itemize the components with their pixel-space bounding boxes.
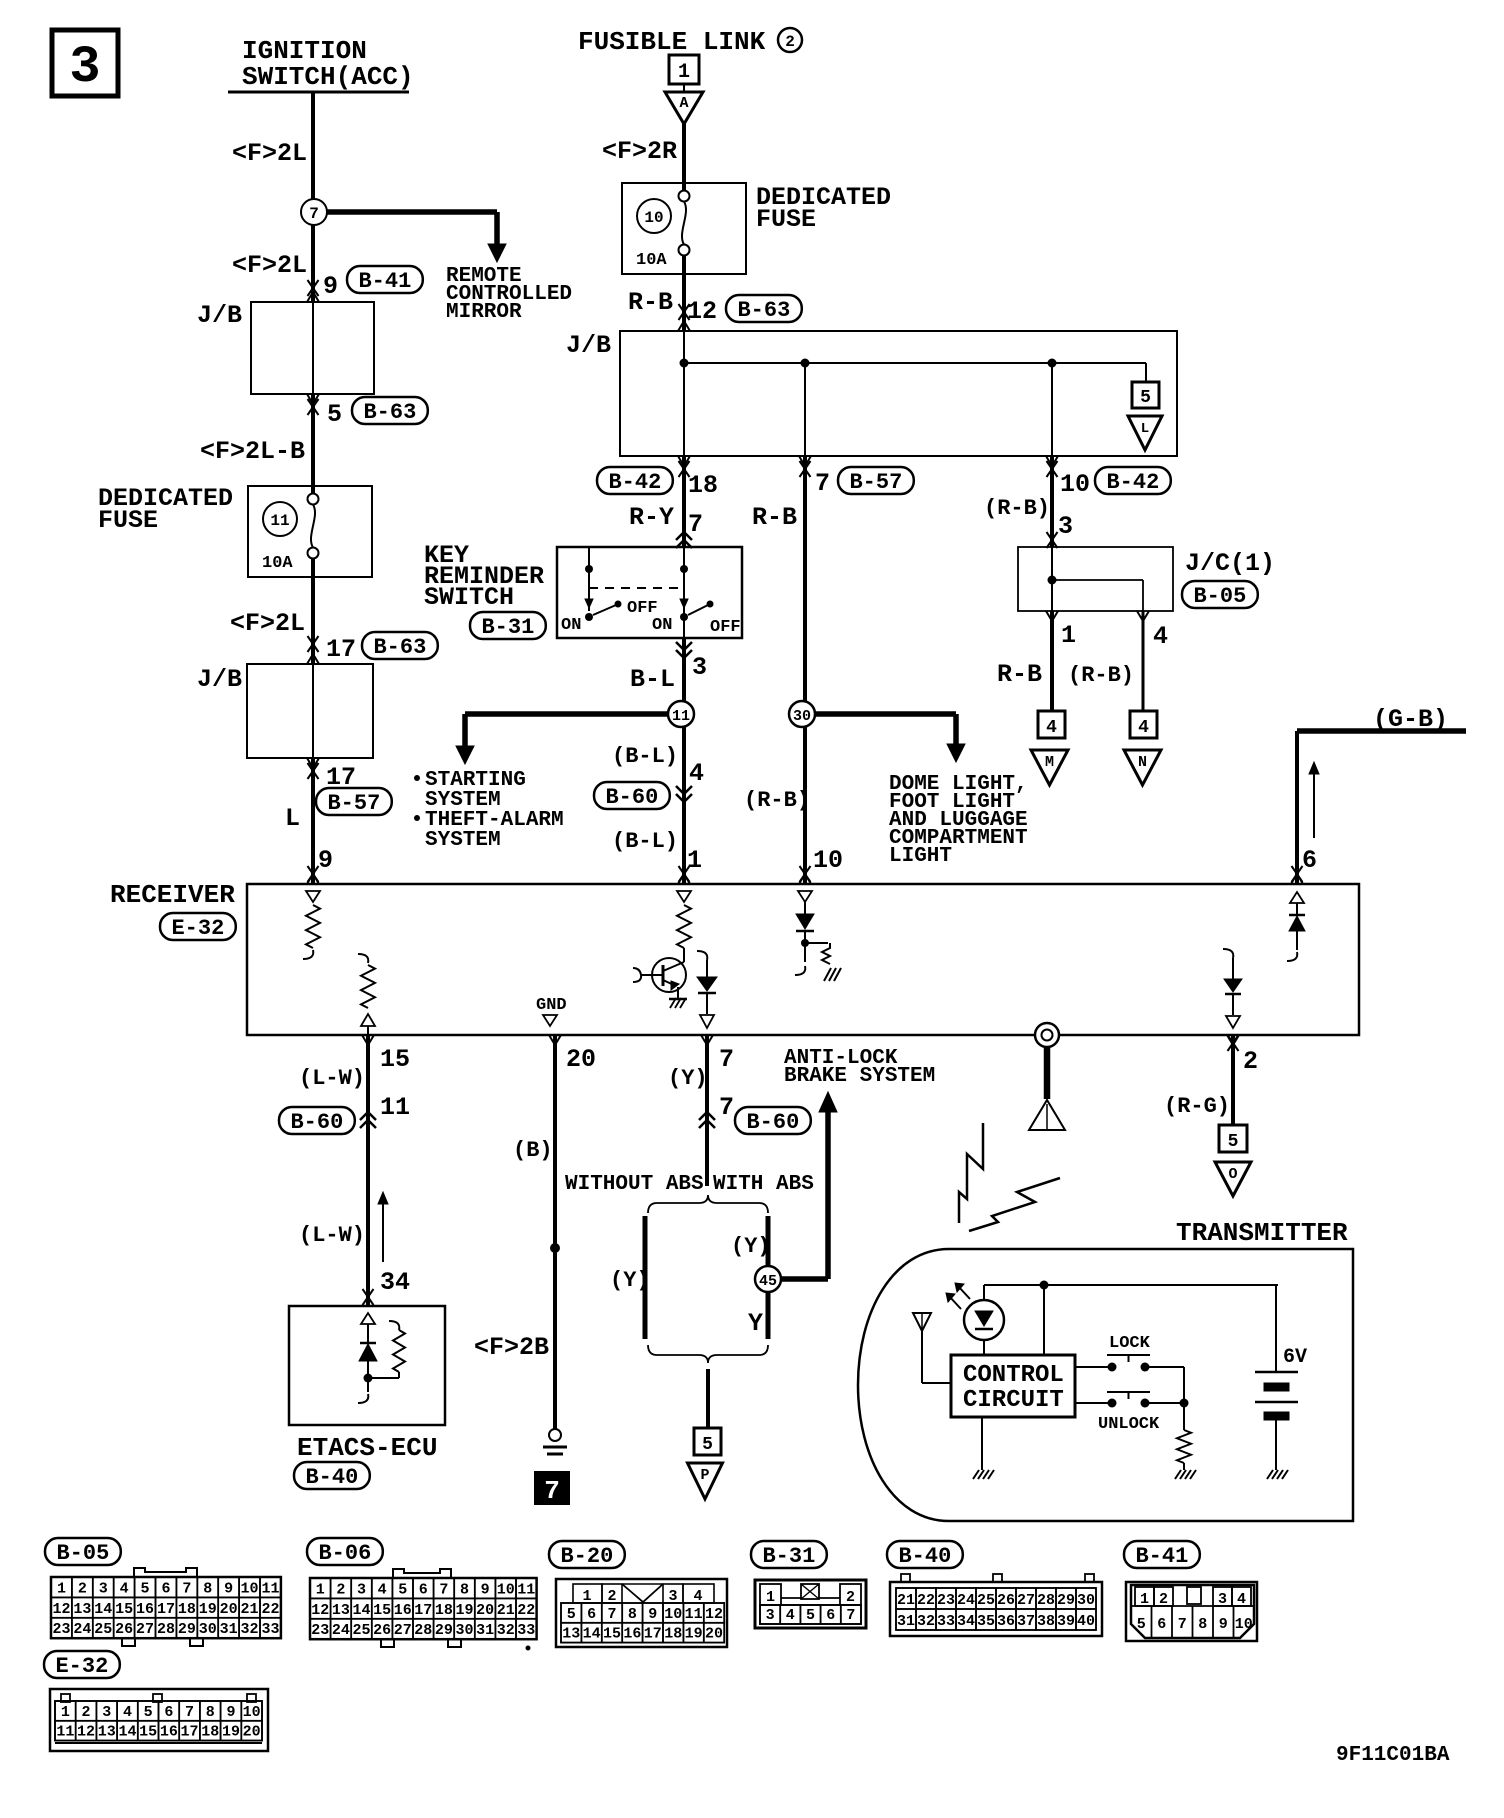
svg-text:23: 23 <box>937 1592 955 1609</box>
svg-text:P: P <box>700 1467 709 1484</box>
svg-text:20: 20 <box>243 1724 261 1741</box>
svg-text:9F11C01BA: 9F11C01BA <box>1336 1744 1450 1767</box>
svg-text:R-Y: R-Y <box>629 503 674 532</box>
svg-text:37: 37 <box>1017 1613 1035 1630</box>
svg-text:<F>2L: <F>2L <box>230 609 305 638</box>
svg-text:8: 8 <box>203 1580 212 1597</box>
svg-text:14: 14 <box>352 1602 370 1619</box>
svg-text:33: 33 <box>937 1613 955 1630</box>
svg-text:18: 18 <box>688 471 718 500</box>
svg-text:B-41: B-41 <box>1135 1544 1188 1569</box>
svg-text:B-57: B-57 <box>849 470 902 495</box>
svg-text:FUSIBLE LINK: FUSIBLE LINK <box>578 27 766 57</box>
svg-text:LOCK: LOCK <box>1109 1334 1151 1353</box>
svg-text:13: 13 <box>98 1724 116 1741</box>
svg-text:RECEIVER: RECEIVER <box>110 880 235 910</box>
svg-text:B-63: B-63 <box>373 635 426 660</box>
svg-text:(R-G): (R-G) <box>1164 1094 1230 1119</box>
svg-text:(B-L): (B-L) <box>612 829 678 854</box>
svg-text:9: 9 <box>1219 1616 1228 1633</box>
svg-text:B-40: B-40 <box>305 1465 358 1490</box>
svg-text:14: 14 <box>94 1601 112 1618</box>
svg-text:19: 19 <box>685 1626 703 1643</box>
svg-text:3: 3 <box>692 653 707 682</box>
svg-text:L: L <box>285 804 300 833</box>
svg-text:4: 4 <box>689 759 704 788</box>
svg-text:11: 11 <box>56 1724 74 1741</box>
svg-text:10: 10 <box>664 1606 682 1623</box>
svg-text:17: 17 <box>157 1601 175 1618</box>
svg-text:4: 4 <box>1046 718 1057 738</box>
svg-text:28: 28 <box>157 1621 175 1638</box>
svg-text:4: 4 <box>378 1581 387 1598</box>
svg-text:10: 10 <box>1060 470 1090 499</box>
svg-text:9: 9 <box>481 1581 490 1598</box>
svg-text:24: 24 <box>332 1622 350 1639</box>
svg-text:5: 5 <box>1137 1616 1146 1633</box>
svg-text:5: 5 <box>398 1581 407 1598</box>
svg-text:SYSTEM: SYSTEM <box>425 829 501 852</box>
svg-text:24: 24 <box>73 1621 91 1638</box>
svg-text:1: 1 <box>766 1589 775 1606</box>
svg-text:R-B: R-B <box>752 503 797 532</box>
svg-text:32: 32 <box>497 1622 515 1639</box>
svg-text:6V: 6V <box>1283 1346 1307 1369</box>
svg-text:3: 3 <box>766 1607 775 1624</box>
svg-text:11: 11 <box>672 708 690 725</box>
svg-text:2: 2 <box>78 1580 87 1597</box>
svg-text:12: 12 <box>77 1724 95 1741</box>
svg-text:1: 1 <box>57 1580 66 1597</box>
svg-text:21: 21 <box>497 1602 515 1619</box>
svg-text:R-B: R-B <box>628 288 673 317</box>
svg-text:13: 13 <box>562 1626 580 1643</box>
svg-text:5: 5 <box>144 1704 153 1721</box>
svg-text:18: 18 <box>201 1724 219 1741</box>
svg-text:UNLOCK: UNLOCK <box>1098 1415 1160 1434</box>
svg-text:8: 8 <box>460 1581 469 1598</box>
svg-text:<F>2L: <F>2L <box>232 251 307 280</box>
svg-text:GND: GND <box>536 996 567 1015</box>
svg-text:B-60: B-60 <box>746 1110 799 1135</box>
svg-text:38: 38 <box>1037 1613 1055 1630</box>
svg-text:B-41: B-41 <box>358 269 411 294</box>
svg-text:(L-W): (L-W) <box>299 1066 365 1091</box>
svg-text:7: 7 <box>719 1045 734 1074</box>
svg-text:20: 20 <box>476 1602 494 1619</box>
svg-text:7: 7 <box>1178 1616 1187 1633</box>
svg-text:22: 22 <box>261 1601 279 1618</box>
svg-text:45: 45 <box>759 1273 777 1290</box>
svg-text:32: 32 <box>917 1613 935 1630</box>
svg-text:26: 26 <box>373 1622 391 1639</box>
svg-text:FUSE: FUSE <box>756 205 816 234</box>
svg-text:(B): (B) <box>513 1138 553 1163</box>
svg-text:B-05: B-05 <box>56 1541 109 1566</box>
svg-text:27: 27 <box>394 1622 412 1639</box>
svg-text:27: 27 <box>1017 1592 1035 1609</box>
svg-text:6: 6 <box>826 1607 835 1624</box>
svg-text:9: 9 <box>323 272 338 301</box>
svg-text:ON: ON <box>652 616 672 635</box>
svg-text:8: 8 <box>1198 1616 1207 1633</box>
svg-text:3: 3 <box>69 38 100 97</box>
svg-text:6: 6 <box>419 1581 428 1598</box>
svg-text:A: A <box>679 95 688 112</box>
svg-text:<F>2R: <F>2R <box>602 137 677 166</box>
svg-text:21: 21 <box>241 1601 259 1618</box>
svg-text:5: 5 <box>1228 1132 1239 1152</box>
svg-text:9: 9 <box>226 1704 235 1721</box>
svg-text:11: 11 <box>270 512 289 530</box>
svg-text:17: 17 <box>326 635 356 664</box>
svg-text:19: 19 <box>222 1724 240 1741</box>
svg-text:1: 1 <box>687 846 702 875</box>
svg-text:(Y): (Y) <box>610 1268 650 1293</box>
svg-text:34: 34 <box>957 1613 975 1630</box>
svg-text:R-B: R-B <box>997 660 1042 689</box>
svg-text:B-06: B-06 <box>318 1541 371 1566</box>
svg-text:M: M <box>1045 754 1054 771</box>
svg-text:8: 8 <box>628 1606 637 1623</box>
svg-text:8: 8 <box>206 1704 215 1721</box>
svg-text:16: 16 <box>136 1601 154 1618</box>
svg-text:5: 5 <box>567 1606 576 1623</box>
svg-text:28: 28 <box>414 1622 432 1639</box>
svg-text:4: 4 <box>1138 718 1149 738</box>
svg-text:SWITCH: SWITCH <box>424 583 514 612</box>
svg-text:40: 40 <box>1077 1613 1095 1630</box>
svg-text:3: 3 <box>1058 512 1073 541</box>
svg-text:3: 3 <box>102 1704 111 1721</box>
svg-text:29: 29 <box>1057 1592 1075 1609</box>
svg-text:<F>2L: <F>2L <box>232 139 307 168</box>
svg-text:B-L: B-L <box>630 665 675 694</box>
svg-text:5: 5 <box>1140 388 1151 408</box>
svg-text:B-60: B-60 <box>605 785 658 810</box>
svg-text:16: 16 <box>623 1626 641 1643</box>
svg-text:7: 7 <box>688 510 703 539</box>
svg-text:E-32: E-32 <box>171 916 224 941</box>
svg-text:24: 24 <box>957 1592 975 1609</box>
svg-text:16: 16 <box>160 1724 178 1741</box>
svg-text:TRANSMITTER: TRANSMITTER <box>1176 1218 1348 1248</box>
svg-text:B-31: B-31 <box>481 615 534 640</box>
svg-text:J/C(1): J/C(1) <box>1185 549 1275 578</box>
svg-text:20: 20 <box>705 1626 723 1643</box>
svg-text:3: 3 <box>357 1581 366 1598</box>
svg-text:15: 15 <box>373 1602 391 1619</box>
svg-text:22: 22 <box>917 1592 935 1609</box>
svg-text:17: 17 <box>644 1626 662 1643</box>
svg-text:1: 1 <box>61 1704 70 1721</box>
svg-text:23: 23 <box>52 1621 70 1638</box>
svg-text:10: 10 <box>241 1580 259 1597</box>
svg-text:B-60: B-60 <box>290 1110 343 1135</box>
svg-text:4: 4 <box>786 1607 795 1624</box>
svg-text:7: 7 <box>846 1607 855 1624</box>
svg-text:4: 4 <box>123 1704 132 1721</box>
svg-text:(R-B): (R-B) <box>984 496 1050 521</box>
svg-text:18: 18 <box>664 1626 682 1643</box>
svg-text:9: 9 <box>224 1580 233 1597</box>
svg-text:B-40: B-40 <box>898 1544 951 1569</box>
svg-text:(R-B): (R-B) <box>744 788 810 813</box>
svg-text:J/B: J/B <box>197 301 242 330</box>
svg-text:OFF: OFF <box>710 618 741 637</box>
svg-text:10A: 10A <box>636 251 667 270</box>
svg-text:10: 10 <box>497 1581 515 1598</box>
svg-text:16: 16 <box>394 1602 412 1619</box>
svg-text:19: 19 <box>199 1601 217 1618</box>
svg-text:34: 34 <box>380 1268 410 1297</box>
svg-text:6: 6 <box>587 1606 596 1623</box>
svg-text:B-57: B-57 <box>327 791 380 816</box>
svg-text:9: 9 <box>318 846 333 875</box>
svg-text:17: 17 <box>181 1724 199 1741</box>
svg-text:6: 6 <box>1302 846 1317 875</box>
svg-text:25: 25 <box>94 1621 112 1638</box>
svg-text:B-20: B-20 <box>560 1544 613 1569</box>
svg-text:30: 30 <box>455 1622 473 1639</box>
svg-text:B-42: B-42 <box>608 470 661 495</box>
svg-text:6: 6 <box>161 1580 170 1597</box>
svg-text:25: 25 <box>352 1622 370 1639</box>
svg-text:3: 3 <box>99 1580 108 1597</box>
svg-text:29: 29 <box>178 1621 196 1638</box>
svg-text:ETACS-ECU: ETACS-ECU <box>297 1433 437 1463</box>
svg-text:10: 10 <box>1235 1616 1253 1633</box>
svg-text:7: 7 <box>182 1580 191 1597</box>
svg-text:13: 13 <box>332 1602 350 1619</box>
svg-text:32: 32 <box>241 1621 259 1638</box>
svg-text:35: 35 <box>977 1613 995 1630</box>
svg-text:Y: Y <box>748 1309 763 1338</box>
svg-text:6: 6 <box>1157 1616 1166 1633</box>
svg-text:7: 7 <box>439 1581 448 1598</box>
svg-text:WITH ABS: WITH ABS <box>713 1173 814 1196</box>
svg-text:7: 7 <box>544 1476 560 1506</box>
svg-text:CONTROL: CONTROL <box>963 1362 1064 1389</box>
svg-text:11: 11 <box>517 1581 535 1598</box>
svg-text:25: 25 <box>977 1592 995 1609</box>
svg-text:12: 12 <box>52 1601 70 1618</box>
svg-text:N: N <box>1138 754 1147 771</box>
svg-text:15: 15 <box>139 1724 157 1741</box>
svg-text:(R-B): (R-B) <box>1068 663 1134 688</box>
svg-text:5: 5 <box>327 400 342 429</box>
svg-text:FUSE: FUSE <box>98 506 158 535</box>
svg-text:20: 20 <box>566 1045 596 1074</box>
svg-text:(L-W): (L-W) <box>299 1223 365 1248</box>
svg-text:31: 31 <box>897 1613 915 1630</box>
svg-text:WITHOUT ABS: WITHOUT ABS <box>565 1173 704 1196</box>
svg-text:11: 11 <box>261 1580 279 1597</box>
svg-text:<F>2B: <F>2B <box>474 1333 549 1362</box>
svg-text:B-63: B-63 <box>363 400 416 425</box>
svg-text:10: 10 <box>243 1704 261 1721</box>
svg-text:9: 9 <box>648 1606 657 1623</box>
svg-text:(Y): (Y) <box>731 1234 771 1259</box>
svg-text:4: 4 <box>120 1580 129 1597</box>
svg-text:26: 26 <box>115 1621 133 1638</box>
svg-text:MIRROR: MIRROR <box>446 301 522 324</box>
svg-text:E-32: E-32 <box>55 1654 108 1679</box>
svg-text:18: 18 <box>435 1602 453 1619</box>
svg-text:2: 2 <box>785 33 795 51</box>
svg-text:14: 14 <box>118 1724 136 1741</box>
svg-text:15: 15 <box>115 1601 133 1618</box>
svg-text:30: 30 <box>793 708 811 725</box>
svg-text:O: O <box>1228 1166 1237 1183</box>
svg-text:22: 22 <box>517 1602 535 1619</box>
svg-text:7: 7 <box>607 1606 616 1623</box>
svg-text:11: 11 <box>380 1093 410 1122</box>
svg-text:B-05: B-05 <box>1193 584 1246 609</box>
svg-text:2: 2 <box>336 1581 345 1598</box>
svg-text:J/B: J/B <box>197 665 242 694</box>
svg-text:33: 33 <box>517 1622 535 1639</box>
svg-text:12: 12 <box>687 297 717 326</box>
svg-text:10: 10 <box>644 209 663 227</box>
svg-text:(B-L): (B-L) <box>612 744 678 769</box>
svg-text:39: 39 <box>1057 1613 1075 1630</box>
svg-text:(Y): (Y) <box>668 1066 708 1091</box>
svg-text:J/B: J/B <box>566 331 611 360</box>
svg-text:18: 18 <box>178 1601 196 1618</box>
svg-text:ON: ON <box>561 616 581 635</box>
svg-text:36: 36 <box>997 1613 1015 1630</box>
svg-text:26: 26 <box>997 1592 1015 1609</box>
svg-text:15: 15 <box>603 1626 621 1643</box>
svg-text:12: 12 <box>705 1606 723 1623</box>
svg-text:29: 29 <box>435 1622 453 1639</box>
svg-text:4: 4 <box>1153 622 1168 651</box>
svg-text:31: 31 <box>220 1621 238 1638</box>
svg-text:31: 31 <box>476 1622 494 1639</box>
svg-text:CIRCUIT: CIRCUIT <box>963 1387 1064 1414</box>
svg-text:5: 5 <box>806 1607 815 1624</box>
svg-text:7: 7 <box>815 469 830 498</box>
svg-text:17: 17 <box>414 1602 432 1619</box>
svg-text:1: 1 <box>1061 621 1076 650</box>
svg-text:12: 12 <box>311 1602 329 1619</box>
svg-text:5: 5 <box>702 1435 713 1455</box>
svg-text:6: 6 <box>164 1704 173 1721</box>
svg-text:15: 15 <box>380 1045 410 1074</box>
svg-text:B-31: B-31 <box>762 1544 815 1569</box>
svg-text:19: 19 <box>455 1602 473 1619</box>
svg-text:1: 1 <box>316 1581 325 1598</box>
svg-text:14: 14 <box>583 1626 601 1643</box>
svg-text:2: 2 <box>846 1589 855 1606</box>
svg-text:SWITCH(ACC): SWITCH(ACC) <box>242 62 414 92</box>
svg-text:2: 2 <box>82 1704 91 1721</box>
svg-text:BRAKE SYSTEM: BRAKE SYSTEM <box>784 1065 935 1088</box>
svg-text:13: 13 <box>73 1601 91 1618</box>
svg-text:11: 11 <box>685 1606 703 1623</box>
svg-text:B-42: B-42 <box>1106 470 1159 495</box>
svg-text:33: 33 <box>261 1621 279 1638</box>
svg-text:L: L <box>1141 421 1149 437</box>
svg-text:B-63: B-63 <box>737 298 790 323</box>
svg-text:7: 7 <box>309 205 319 223</box>
svg-text:10: 10 <box>813 846 843 875</box>
svg-text:5: 5 <box>141 1580 150 1597</box>
svg-text:27: 27 <box>136 1621 154 1638</box>
svg-text:2: 2 <box>1243 1047 1258 1076</box>
svg-text:28: 28 <box>1037 1592 1055 1609</box>
svg-text:23: 23 <box>311 1622 329 1639</box>
svg-text:<F>2L-B: <F>2L-B <box>200 437 305 466</box>
svg-text:20: 20 <box>220 1601 238 1618</box>
svg-text:7: 7 <box>185 1704 194 1721</box>
svg-text:30: 30 <box>199 1621 217 1638</box>
svg-text:21: 21 <box>897 1592 915 1609</box>
svg-text:30: 30 <box>1077 1592 1095 1609</box>
svg-text:10A: 10A <box>262 554 293 573</box>
svg-text:7: 7 <box>719 1093 734 1122</box>
svg-text:LIGHT: LIGHT <box>889 845 952 868</box>
svg-text:1: 1 <box>678 61 690 84</box>
